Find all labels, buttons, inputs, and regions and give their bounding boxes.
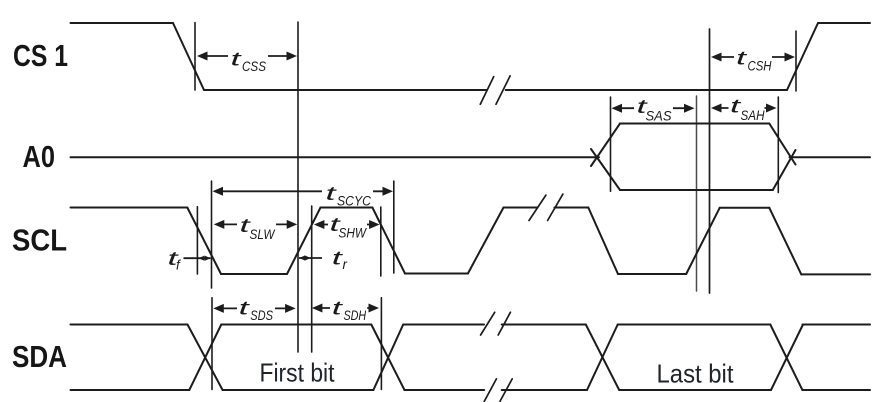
break marks on CS1 low line [480, 76, 510, 104]
wire SCL high 3 left of break [504, 207, 538, 209]
svg-text:t: t [736, 49, 747, 70]
wire CS1 high right segment [818, 22, 870, 24]
svg-text:Last bit: Last bit [657, 359, 735, 389]
wire SDA high mid right of break [502, 324, 586, 326]
tick at CS1 fall [194, 23, 196, 91]
wire SCL low 1 [221, 273, 287, 275]
tick at SDA crossover 1 [211, 298, 213, 390]
svg-text:SCL: SCL [12, 223, 67, 258]
wire SDA first-bit low [223, 389, 374, 391]
arrow tSDH [322, 307, 369, 309]
svg-text:SHW: SHW [339, 225, 368, 240]
tick at SCL rise 1 [311, 206, 313, 352]
wire A0 valid low edge [620, 189, 773, 191]
wire SDA last-bit low [619, 389, 771, 391]
svg-text:A0: A0 [23, 139, 56, 174]
arrow tSLW [224, 223, 287, 225]
wire SCL fall 3 [588, 208, 618, 275]
wire SCL high 1 [71, 207, 188, 209]
wire A0 line left [71, 156, 600, 158]
svg-text:f: f [176, 258, 181, 273]
node reference line right gray (long vertical) [696, 96, 698, 291]
break marks on SDA low line [484, 379, 512, 402]
svg-text:t: t [332, 249, 343, 270]
SDA crossover 1 [188, 325, 223, 391]
wire CS1 falling edge [173, 23, 204, 90]
break marks on SDA high line [481, 312, 511, 335]
arrow tCSH [721, 56, 785, 58]
svg-text:CSS: CSS [242, 59, 266, 74]
wire A0 valid high edge [620, 123, 769, 125]
svg-text:SDH: SDH [344, 308, 367, 323]
wire SDA first-bit high [221, 324, 371, 326]
svg-text:t: t [231, 50, 242, 71]
wire SDA low right [803, 389, 870, 391]
wire SCL rise 3 [686, 208, 720, 274]
svg-text:t: t [239, 299, 250, 320]
wire SCL low 4 [801, 273, 870, 275]
break marks on SCL high line [529, 194, 563, 220]
SDA crossover 4 [770, 325, 803, 391]
wire SCL fall 2 [372, 208, 405, 274]
wire SDA high mid left of break [403, 324, 484, 326]
wire SCL rise 2 [468, 208, 504, 274]
wire SCL rise 1 [287, 208, 321, 275]
wire SDA high right [802, 324, 870, 326]
arrow tCSS [207, 55, 287, 57]
svg-text:t: t [326, 184, 337, 205]
wire SDA high left [71, 324, 188, 326]
arrow tSAH [721, 107, 767, 109]
arrow tSAS [622, 107, 685, 109]
arrow tSCYC [223, 190, 384, 192]
svg-text:SDA: SDA [12, 339, 67, 374]
wire CS1 high left segment [71, 22, 174, 24]
A0 closing crossover [769, 124, 795, 191]
wire SDA last-bit high [618, 324, 771, 326]
wire SCL low 3 [618, 273, 686, 275]
wire SCL high 3 right of break [554, 207, 588, 209]
node reference line right black (long vertical) [709, 29, 711, 293]
svg-text:SDS: SDS [250, 308, 273, 323]
arrow tr rise-time pointer [299, 257, 322, 259]
SDA crossover 2 [371, 325, 404, 391]
tick pair at SCL fall 1 [197, 181, 211, 288]
tick at A0 close [777, 97, 779, 193]
svg-text:First bit: First bit [260, 358, 336, 388]
svg-text:SCYC: SCYC [337, 194, 371, 209]
wire SDA low left [71, 389, 190, 391]
wire SCL fall 4 [769, 208, 801, 275]
wire SCL low 2 [405, 273, 468, 275]
tick at A0 open [610, 97, 612, 191]
svg-text:SAH: SAH [741, 108, 765, 123]
svg-text:CSH: CSH [748, 59, 772, 74]
wire SCL high 2 [321, 207, 373, 209]
svg-text:SLW: SLW [250, 227, 276, 242]
wire CS1 rising edge [787, 23, 818, 90]
svg-text:CS 1: CS 1 [13, 38, 68, 73]
svg-text:SAS: SAS [646, 108, 672, 123]
SDA crossover 3 [586, 325, 619, 391]
wire SCL fall 1 [187, 208, 221, 275]
arrow tf fall-time pointer [184, 257, 211, 259]
node reference line through CS1 fall (long vertical) [297, 22, 299, 352]
svg-text:r: r [343, 257, 348, 272]
A0 opening crossover [591, 124, 620, 191]
wire SCL high 4 [720, 207, 770, 209]
wire CS1 low right of break [506, 89, 787, 91]
svg-text:t: t [332, 299, 343, 320]
tick pair at SCL fall 2 [381, 181, 394, 276]
arrow tSHW [324, 224, 370, 226]
wire CS1 low left of break [204, 89, 486, 91]
arrow tSDS [223, 307, 285, 309]
wire SDA low mid right of break [502, 389, 587, 391]
tick at CS1 rise [795, 31, 797, 91]
wire SDA low mid left of break [405, 389, 485, 391]
tick at SDA crossover 2 [380, 298, 382, 390]
wire A0 line right [790, 156, 871, 158]
